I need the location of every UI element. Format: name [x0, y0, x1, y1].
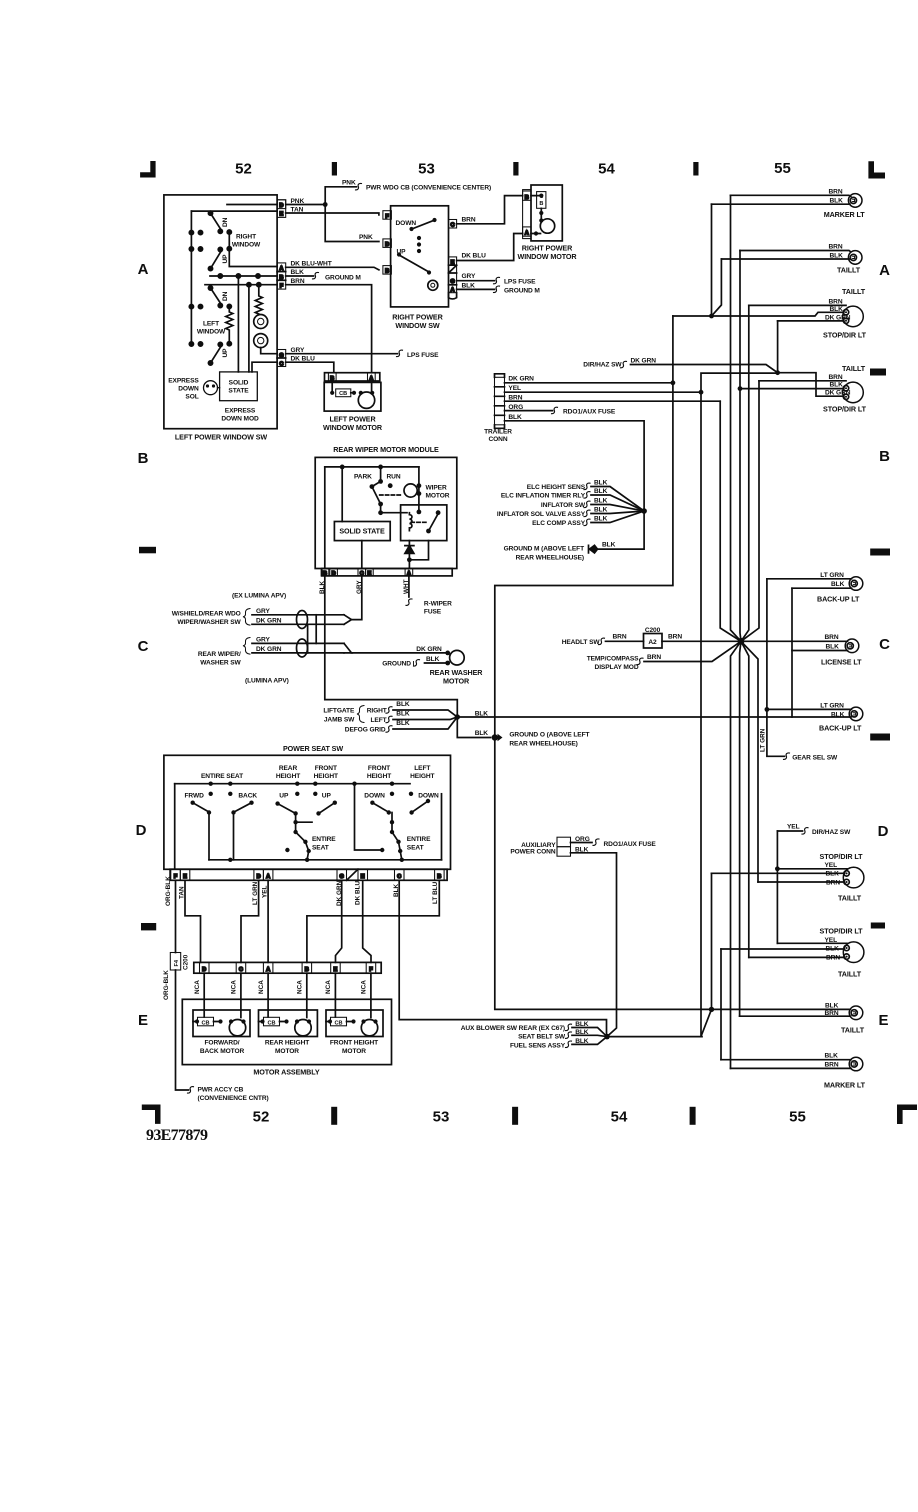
- connector torn end: [449, 293, 457, 299]
- park switch chain: [372, 467, 407, 513]
- pin E motor asm: [331, 962, 341, 973]
- corner mark top-right: [868, 161, 885, 178]
- sensor circle 2: [254, 334, 268, 348]
- wire BLK marker lt: [712, 203, 851, 205]
- wire BLK seat belt: [572, 1035, 607, 1036]
- svg-text:BLK: BLK: [825, 1002, 839, 1009]
- fuse ref liftgate right: [386, 707, 392, 714]
- svg-text:WINDOW MOTOR: WINDOW MOTOR: [518, 252, 578, 261]
- switch arm DOWN1: [372, 803, 387, 812]
- wire bus v759 taillt2 brn: [741, 381, 759, 642]
- svg-text:DK GRN: DK GRN: [256, 646, 282, 653]
- svg-text:LT GRN: LT GRN: [820, 572, 844, 579]
- svg-text:UP: UP: [279, 792, 289, 799]
- seat sw bottom rail: [209, 859, 442, 861]
- wire BRN taillt A: [740, 251, 851, 252]
- pin F motor asm: [366, 962, 376, 973]
- svg-text:STOP/DIR LT: STOP/DIR LT: [820, 926, 864, 935]
- svg-text:C200: C200: [183, 954, 190, 970]
- pin F seat: [171, 869, 181, 880]
- svg-text:B: B: [437, 874, 441, 880]
- wire crossover v1: [315, 615, 317, 644]
- svg-text:EXPRESS: EXPRESS: [168, 378, 199, 385]
- svg-text:ELC HEIGHT SENS: ELC HEIGHT SENS: [527, 484, 586, 491]
- svg-text:DK BLU: DK BLU: [355, 880, 362, 905]
- connector C200 A2 box: [644, 634, 663, 649]
- connector oval 1: [297, 611, 308, 629]
- right ladder: [391, 813, 393, 833]
- aux power conn boxes: [557, 837, 571, 847]
- fh dots: [328, 1019, 332, 1023]
- mid ladder: [296, 813, 312, 832]
- svg-text:WIPER: WIPER: [426, 485, 447, 492]
- wire rail to solid state: [341, 467, 343, 522]
- brace liftgate: [357, 706, 364, 723]
- wire pin B to rail: [324, 467, 326, 569]
- svg-text:TAILLT: TAILLT: [842, 287, 866, 296]
- svg-text:C: C: [138, 638, 149, 655]
- node dots row F: [247, 283, 251, 287]
- pin B right motor: [523, 191, 531, 200]
- wire BRN headlt sw: [606, 640, 644, 642]
- svg-text:PWR WDO CB (CONVENIENCE CENTER: PWR WDO CB (CONVENIENCE CENTER): [366, 185, 491, 192]
- pin B motor: [328, 373, 336, 381]
- wire right window common: [229, 232, 277, 266]
- svg-text:BRN: BRN: [829, 244, 843, 251]
- wire dk grn right jog to A2 lamp: [778, 373, 844, 397]
- svg-text:BLK: BLK: [575, 1029, 589, 1036]
- svg-text:B: B: [879, 448, 890, 465]
- node hub: [738, 638, 745, 645]
- svg-text:FORWARD/: FORWARD/: [205, 1039, 240, 1046]
- marker lamp A: [848, 194, 862, 208]
- svg-text:D: D: [257, 874, 261, 880]
- node elc junction: [641, 508, 647, 514]
- svg-text:MOTOR ASSEMBLY: MOTOR ASSEMBLY: [253, 1068, 320, 1077]
- wire BLK stop/dir D: [712, 872, 845, 874]
- svg-text:DK GRN: DK GRN: [631, 358, 657, 365]
- pin D module: [330, 569, 338, 576]
- svg-text:LEFT: LEFT: [203, 321, 219, 328]
- pin D seat: [254, 869, 264, 880]
- svg-text:BLK: BLK: [396, 710, 410, 717]
- svg-text:BLK: BLK: [826, 945, 840, 952]
- front height motor box: [326, 1010, 383, 1037]
- wire trailer YEL: [505, 391, 702, 393]
- svg-text:YEL: YEL: [787, 823, 800, 830]
- forward/back motor box: [193, 1010, 250, 1037]
- svg-text:D: D: [202, 967, 206, 973]
- relay coil: [409, 513, 412, 531]
- license lamp: [845, 639, 859, 653]
- connector oval 2: [297, 639, 308, 657]
- svg-text:CB: CB: [267, 1020, 275, 1026]
- svg-text:TAILLT: TAILLT: [838, 969, 862, 978]
- svg-text:DN: DN: [222, 217, 229, 227]
- svg-text:WINDOW: WINDOW: [232, 242, 261, 249]
- wire blk D drop to ground: [711, 873, 713, 1009]
- wire bus below hub v748: [741, 641, 749, 957]
- svg-text:NCA: NCA: [361, 980, 368, 994]
- wire BLK aux blower: [572, 1028, 607, 1037]
- bottom tick 1: [331, 1107, 337, 1125]
- svg-text:YEL: YEL: [508, 385, 521, 392]
- svg-text:BLK: BLK: [426, 656, 440, 663]
- svg-text:BLK: BLK: [594, 480, 608, 487]
- wire DK BLU pin H to motor F: [363, 880, 371, 962]
- wire TAN pin E to motor D: [185, 880, 201, 962]
- svg-text:TAILLT: TAILLT: [837, 265, 861, 274]
- wire BLK elc comp assy: [591, 511, 644, 523]
- svg-text:GRY: GRY: [256, 636, 270, 643]
- svg-text:CB: CB: [201, 1020, 209, 1026]
- wire BLK backup B: [792, 587, 852, 589]
- switch arm UP left window: [211, 346, 222, 364]
- rh motor circle: [295, 1019, 311, 1035]
- svg-text:DK GRN: DK GRN: [825, 315, 851, 322]
- svg-text:WIPER/WASHER SW: WIPER/WASHER SW: [177, 619, 241, 626]
- svg-text:AUX BLOWER SW REAR (EX C67): AUX BLOWER SW REAR (EX C67): [461, 1025, 565, 1032]
- svg-text:TRAILER: TRAILER: [484, 428, 512, 435]
- svg-text:RUN: RUN: [387, 474, 401, 481]
- wire NCA E: [334, 973, 336, 1017]
- wire BRN from C200 through hub to license lamp: [662, 640, 848, 642]
- fuse ref HEADLT SW: [599, 638, 605, 645]
- svg-text:D: D: [878, 823, 889, 840]
- wire sensor to pin G: [261, 348, 277, 354]
- svg-text:BLK: BLK: [575, 1038, 589, 1045]
- svg-text:YEL: YEL: [825, 862, 838, 869]
- wire TAN from pin E to right sw pin F: [286, 213, 379, 215]
- svg-text:REAR HEIGHT: REAR HEIGHT: [265, 1039, 309, 1046]
- svg-text:DIR/HAZ SW: DIR/HAZ SW: [812, 829, 851, 836]
- wire BLK liftgate left: [393, 717, 457, 720]
- pin B right sw: [383, 266, 392, 275]
- svg-text:DK GRN: DK GRN: [825, 390, 851, 397]
- wire BLK elc inflation timer: [591, 495, 644, 511]
- wire bus below hub v739: [740, 641, 741, 1016]
- wire DK GRN stop/dir A1: [778, 320, 844, 322]
- fuse ref fuel sens: [566, 1041, 572, 1048]
- edge dash left B-C: [139, 547, 156, 554]
- wire NCA F: [370, 973, 372, 1017]
- fuse ref PWR ACCY CB: [188, 1087, 194, 1094]
- svg-text:FRONT HEIGHT: FRONT HEIGHT: [330, 1039, 378, 1046]
- wire BLK marker E: [721, 1059, 851, 1061]
- fb dots: [195, 1019, 199, 1023]
- svg-text:ORG-BLK: ORG-BLK: [165, 876, 172, 906]
- lone contact dot: [285, 848, 289, 852]
- relay dashed link: [411, 521, 428, 523]
- bottom tick 3: [690, 1107, 696, 1125]
- svg-text:SEAT: SEAT: [312, 844, 329, 851]
- wire BLK taillt A: [721, 258, 850, 260]
- svg-text:C: C: [397, 874, 401, 880]
- wire trailer BRN: [505, 400, 721, 402]
- svg-text:D: D: [279, 203, 283, 209]
- wire DK BLU from pin E to right motor pin A: [457, 234, 523, 261]
- wire BRN stop/dir D2: [749, 956, 845, 958]
- wire drop mid2 to solid state: [248, 285, 250, 372]
- svg-text:LT GRN: LT GRN: [760, 728, 767, 752]
- svg-text:BACK MOTOR: BACK MOTOR: [200, 1048, 245, 1055]
- svg-text:WASHER SW: WASHER SW: [200, 660, 241, 667]
- svg-text:JAMB SW: JAMB SW: [324, 717, 355, 724]
- wire GRY from pin G to LPS fuse: [457, 280, 495, 282]
- wire BLK module b down: [325, 576, 458, 717]
- svg-text:NCA: NCA: [258, 980, 265, 994]
- pin C seat: [395, 869, 405, 880]
- stop/dir lamp D2: [843, 942, 864, 963]
- pin E seat: [180, 869, 190, 880]
- switch arm FRWD: [193, 803, 208, 812]
- pin A motor asm: [263, 962, 273, 973]
- svg-text:A2: A2: [648, 639, 657, 646]
- node liftgate junction: [455, 714, 460, 719]
- svg-text:MOTOR: MOTOR: [443, 676, 470, 685]
- svg-text:CB: CB: [334, 1020, 342, 1026]
- wire interior pin E rail: [191, 210, 277, 212]
- svg-text:GEAR SEL SW: GEAR SEL SW: [792, 754, 838, 761]
- wire pin C interior: [252, 362, 277, 372]
- svg-text:(EX LUMINA APV): (EX LUMINA APV): [232, 593, 286, 600]
- wire interior pin D stub: [227, 204, 277, 206]
- svg-text:GROUND M (ABOVE LEFT: GROUND M (ABOVE LEFT: [504, 546, 584, 553]
- diode to pin A: [409, 541, 428, 569]
- svg-text:ORG: ORG: [575, 836, 590, 843]
- wire ORG aux: [571, 842, 593, 844]
- wire ORG-BLK below F4: [176, 970, 189, 1090]
- fuse ref defog grid: [386, 726, 392, 733]
- svg-text:BLK: BLK: [291, 269, 305, 276]
- svg-text:E: E: [280, 212, 284, 218]
- right diag chain: [392, 832, 402, 860]
- pin D: [277, 200, 286, 209]
- svg-text:E: E: [138, 1012, 148, 1029]
- wire BLK defog grid: [393, 717, 457, 729]
- ground M diamond: [589, 545, 598, 553]
- svg-text:REAR WIPER MOTOR MODULE: REAR WIPER MOTOR MODULE: [333, 445, 439, 454]
- svg-text:ENTIRE SEAT: ENTIRE SEAT: [201, 773, 243, 780]
- svg-text:ORG-BLK: ORG-BLK: [163, 970, 170, 1000]
- svg-text:DIR/HAZ SW: DIR/HAZ SW: [583, 361, 622, 368]
- pin C module: [358, 569, 366, 576]
- node lt grn junction: [765, 707, 770, 712]
- svg-text:93E77879: 93E77879: [146, 1127, 208, 1144]
- svg-text:BLK: BLK: [826, 644, 840, 651]
- svg-text:55: 55: [789, 1109, 806, 1126]
- pin C motor asm: [236, 962, 246, 973]
- seat wires to motor connector: [170, 880, 606, 1093]
- svg-text:MOTOR: MOTOR: [342, 1048, 366, 1055]
- svg-text:BRN: BRN: [462, 217, 476, 224]
- wire GRY wshield: [252, 614, 344, 616]
- wire bus below hub v730: [731, 641, 742, 1068]
- svg-text:EXPRESS: EXPRESS: [225, 408, 256, 415]
- taillamp E: [849, 1006, 863, 1020]
- svg-text:G: G: [340, 874, 344, 880]
- wire YEL stop/dir D2: [777, 942, 847, 944]
- svg-text:B: B: [305, 967, 309, 973]
- svg-text:UP: UP: [397, 248, 407, 255]
- stop/dir lamp D: [843, 867, 864, 888]
- svg-text:DK GRN: DK GRN: [416, 646, 442, 653]
- svg-text:C: C: [879, 636, 890, 653]
- svg-text:LEFT POWER WINDOW SW: LEFT POWER WINDOW SW: [175, 433, 268, 442]
- svg-text:D: D: [136, 822, 147, 839]
- diode symbol: [405, 546, 414, 554]
- wire drop mid to solid state: [237, 276, 239, 372]
- wire node to bus: [607, 1036, 702, 1038]
- svg-text:LEFT: LEFT: [371, 717, 387, 724]
- svg-text:SOLID STATE: SOLID STATE: [339, 526, 385, 535]
- pin A module: [405, 569, 413, 576]
- wire BLK pin C down: [399, 880, 606, 1036]
- svg-text:RIGHT: RIGHT: [236, 234, 256, 241]
- wire PNK down to right sw pin D: [325, 205, 379, 242]
- svg-text:B: B: [539, 201, 543, 207]
- svg-text:BACK-UP LT: BACK-UP LT: [817, 594, 860, 603]
- svg-text:SOLID: SOLID: [229, 380, 249, 387]
- svg-text:SEAT: SEAT: [407, 844, 424, 851]
- wire BLK from pin B to ground ref: [286, 275, 314, 277]
- wire bus v721 taillt blk jog: [712, 259, 722, 316]
- svg-text:NCA: NCA: [194, 980, 201, 994]
- svg-text:A: A: [879, 262, 890, 279]
- keyway slash seat: [347, 869, 359, 880]
- svg-text:HEIGHT: HEIGHT: [410, 773, 434, 780]
- svg-text:ELC INFLATION TIMER RLY: ELC INFLATION TIMER RLY: [501, 492, 586, 499]
- wire dk grn up to A1 lamp: [777, 321, 779, 373]
- node washer blk: [445, 661, 450, 666]
- svg-text:A: A: [266, 874, 270, 880]
- mid long drop: [355, 784, 383, 850]
- svg-text:PWR ACCY CB: PWR ACCY CB: [198, 1087, 244, 1094]
- wire DK BLU-WHT from pin A to right sw pin B: [286, 267, 379, 270]
- wire BLK from pin A to ground ref: [457, 288, 495, 290]
- svg-text:(CONVENIENCE CNTR): (CONVENIENCE CNTR): [198, 1095, 269, 1102]
- wiper switch arm dashed: [380, 494, 402, 496]
- svg-text:NCA: NCA: [231, 980, 238, 994]
- svg-text:STATE: STATE: [228, 388, 249, 395]
- svg-text:BLK: BLK: [831, 711, 845, 718]
- svg-text:PNK: PNK: [291, 198, 305, 205]
- svg-text:RIGHT: RIGHT: [367, 708, 387, 715]
- svg-text:FUSE: FUSE: [424, 609, 442, 616]
- svg-text:53: 53: [433, 1109, 450, 1126]
- rear height motor box: [259, 1010, 318, 1037]
- svg-text:MOTOR: MOTOR: [426, 493, 450, 500]
- fuse ref elc4: [584, 510, 590, 517]
- motor circle: [540, 219, 554, 233]
- svg-text:B: B: [138, 450, 149, 467]
- svg-text:PNK: PNK: [342, 180, 356, 187]
- wire interior to pin F: [205, 284, 277, 286]
- node yel D junction: [775, 866, 780, 871]
- wire trailer ORG: [505, 410, 553, 412]
- keyway slash box: [449, 265, 457, 273]
- left power window sw box: [164, 195, 277, 429]
- wire NCA C: [240, 973, 242, 1017]
- wire BLK main to backup lamp C: [457, 716, 851, 718]
- motor circle: [358, 392, 374, 408]
- contact dots right window UP: [189, 247, 193, 251]
- svg-text:SOL: SOL: [185, 394, 198, 401]
- fuse ref GEAR SEL SW: [784, 753, 790, 760]
- contact dots right window DN: [189, 231, 193, 235]
- sensor circle 1: [254, 315, 268, 329]
- contact dots column: [417, 236, 421, 240]
- svg-text:FRONT: FRONT: [368, 765, 390, 772]
- fuse ref elc2: [584, 492, 590, 499]
- svg-text:LIFTGATE: LIFTGATE: [323, 708, 355, 715]
- taillamp A: [848, 251, 862, 265]
- connector F4 box: [170, 953, 180, 971]
- pin A seat: [263, 869, 273, 880]
- module pin bar: [322, 569, 453, 576]
- node junction blk/taillt E: [709, 1007, 714, 1012]
- svg-text:INFLATOR SW: INFLATOR SW: [541, 502, 586, 509]
- svg-text:TEMP/COMPASS: TEMP/COMPASS: [587, 655, 639, 662]
- svg-text:52: 52: [253, 1109, 270, 1126]
- wire bus v711 marker blk: [711, 204, 713, 316]
- marker lamp E: [849, 1057, 863, 1071]
- wire GRY from pin G to LPS fuse: [286, 353, 398, 355]
- svg-text:BRN: BRN: [826, 879, 840, 886]
- pin B motor asm: [302, 962, 312, 973]
- svg-text:DOWN: DOWN: [396, 220, 417, 227]
- svg-text:BRN: BRN: [829, 374, 843, 381]
- svg-text:BLK: BLK: [594, 488, 608, 495]
- right rail drop: [441, 794, 443, 860]
- corner mark bottom-left: [142, 1105, 161, 1124]
- wire WHT pin A to fuse: [408, 576, 410, 597]
- svg-text:DK BLU: DK BLU: [462, 253, 487, 260]
- fuse ref LPS FUSE right: [494, 277, 500, 284]
- CB vertical box: [537, 192, 546, 209]
- wire BRN temp/compass diagonal to hub: [644, 641, 741, 661]
- pin B module: [321, 569, 329, 576]
- svg-text:BLK: BLK: [396, 701, 410, 708]
- svg-text:TAILLT: TAILLT: [838, 893, 862, 902]
- ground ref GROUND M right: [494, 286, 500, 293]
- pin A right sw: [449, 284, 457, 286]
- node blk A2 tap: [738, 386, 743, 391]
- svg-text:H: H: [361, 874, 365, 880]
- stop/dir lamp A1: [843, 306, 864, 327]
- contact dots left window DN: [189, 305, 193, 309]
- svg-text:BLK: BLK: [594, 498, 608, 505]
- backup lamp B: [849, 577, 863, 591]
- edge dash right B-C: [870, 549, 890, 556]
- svg-text:BLK: BLK: [831, 581, 845, 588]
- fuse ref seat belt: [566, 1032, 572, 1039]
- svg-text:BRN: BRN: [825, 634, 839, 641]
- run contact dot: [388, 483, 393, 488]
- svg-text:REAR: REAR: [279, 765, 298, 772]
- svg-text:D: D: [332, 571, 336, 577]
- wire rail left drop to pin F: [174, 784, 176, 870]
- wire bus v730 marker brn: [731, 195, 742, 641]
- node dots row B: [218, 274, 222, 278]
- wire interior left rail: [190, 211, 192, 344]
- connector strip low (pins G,C): [277, 350, 286, 367]
- svg-text:BLK: BLK: [594, 516, 608, 523]
- svg-text:NCA: NCA: [325, 980, 332, 994]
- right connector strip: [449, 220, 457, 229]
- pin F: [277, 279, 286, 281]
- svg-text:ELC COMP ASSY: ELC COMP ASSY: [532, 520, 586, 527]
